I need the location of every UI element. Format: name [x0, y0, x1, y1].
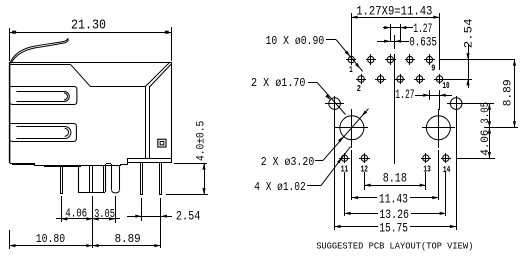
dim text 10.80 [36, 233, 65, 246]
side latch slot 1 outer [10, 87, 77, 105]
svg-text:8.89: 8.89 [115, 233, 141, 246]
svg-text:2 X ø1.70: 2 X ø1.70 [251, 77, 306, 90]
svg-text:10.80: 10.80 [36, 233, 65, 246]
svg-text:3.05: 3.05 [480, 102, 492, 124]
dim text 1.27X9=11.43 [356, 5, 432, 19]
dim text 3.05 (right) [480, 102, 492, 124]
pad 8 (Ø0.90) [414, 74, 425, 84]
pin label 14 [443, 164, 451, 175]
svg-text:15.75: 15.75 [379, 220, 408, 235]
dim text 2.54 (right) [463, 18, 475, 48]
dim 0.635 tick [0, 0, 1, 1]
dim text 11.43 [379, 192, 408, 207]
svg-text:1.27X9=11.43: 1.27X9=11.43 [356, 5, 432, 19]
pad 14 (Ø1.02) [441, 153, 451, 163]
pad 11 (Ø1.02) [339, 153, 350, 163]
svg-text:1: 1 [349, 64, 353, 75]
dim text 21.30 [71, 17, 106, 33]
note 2 X ø3.20 [261, 156, 323, 169]
ext pads 12-13 down [365, 172, 426, 190]
dim text 13.26 [379, 207, 409, 222]
dim 4.0±0.5 line [202, 163, 205, 194]
dim text 4.06 (right) [480, 130, 492, 156]
latch spring wire [10, 38, 68, 63]
dim 15.75 line [334, 225, 456, 228]
dim 1.27 line (pads 9-10) [415, 94, 452, 97]
dim 21.30 extension lines [10, 27, 172, 61]
dim text 1.27 (top) [413, 22, 432, 36]
note 4 X ø1.02 [254, 181, 321, 194]
pad 9 (Ø0.90) [424, 54, 435, 65]
dim 1.27 ticks (pads 9-10) [430, 90, 440, 110]
dim 1.27X9=11.43 extension lines [352, 13, 440, 70]
pin label 1 [349, 64, 353, 75]
pad 6 (Ø0.90) [395, 74, 405, 84]
pad 12 (Ø1.02) [359, 153, 370, 163]
svg-text:2.54: 2.54 [463, 18, 475, 48]
dim text 8.89 [115, 233, 141, 246]
svg-text:13: 13 [423, 164, 431, 175]
dim 21.30 line [10, 31, 171, 34]
dim text 1.27 (pads 9-10) [395, 88, 414, 102]
side latch slot 2 inner lance [16, 127, 71, 139]
pad 2 (Ø0.90) [356, 74, 366, 84]
svg-text:8.89: 8.89 [503, 79, 515, 106]
dim text 0.635 [409, 36, 437, 50]
body right edge [171, 62, 173, 158]
board-lock flange bar [128, 158, 172, 163]
svg-text:4 X ø1.02: 4 X ø1.02 [254, 181, 305, 194]
caption SUGGESTED PCB LAYOUT(TOP VIEW) [316, 240, 473, 251]
top-left chamfer edge [70, 64, 90, 86]
pad 13 (Ø1.02) [421, 153, 431, 163]
svg-text:4.06: 4.06 [65, 207, 87, 221]
svg-text:4.06: 4.06 [480, 130, 492, 156]
pin label 10 [442, 80, 449, 91]
body bottom edge left [10, 163, 35, 166]
leader 4 X ø1.02 [321, 147, 351, 186]
dim 10.80/8.89 line [9, 244, 161, 247]
body top edge [9, 62, 171, 64]
dim 4.06/3.05 line [56, 217, 120, 220]
dim 4.0±0.5 extension lines [166, 164, 208, 195]
pad 7 (Ø0.90) [405, 54, 415, 65]
svg-text:4.0±0.5: 4.0±0.5 [195, 121, 207, 161]
svg-text:21.30: 21.30 [71, 17, 106, 33]
dim text 2.54 (left view) [176, 208, 201, 223]
dim 2.54 line [127, 215, 172, 218]
pad 10 (Ø0.90) [434, 74, 445, 84]
row extension lines right [440, 60, 514, 80]
svg-text:3.05: 3.05 [94, 207, 115, 221]
shelf notch [106, 164, 112, 167]
dim 3.05/4.06 extension lines right [457, 104, 495, 159]
dim 8.89 line (right) [513, 59, 516, 127]
shield leg C [140, 163, 143, 195]
dim text 4.06 [65, 207, 87, 221]
svg-text:14: 14 [443, 164, 451, 175]
left Ø3.20 hole [335, 109, 368, 148]
U-shaped post [112, 166, 120, 193]
leader 2 X ø3.20 [323, 109, 369, 161]
dim 1.27X9=11.43 line [351, 16, 440, 19]
dim 13.26 line [344, 212, 446, 215]
pad 3 (Ø0.90) [366, 54, 376, 65]
svg-text:11.43: 11.43 [379, 192, 408, 207]
solder pin A (thin) [60, 166, 63, 194]
svg-text:10: 10 [442, 80, 449, 91]
dim text 4.0±0.5 [195, 121, 207, 161]
pin label 2 [357, 83, 361, 94]
vertical centerline [394, 35, 396, 164]
dim 10.80/8.89 extension line [9, 230, 11, 249]
front face edge lines [146, 86, 150, 158]
dim 4.06/3.05 extension lines [62, 196, 116, 248]
note 10 X ø0.90 [266, 35, 337, 48]
shield leg D [159, 163, 162, 195]
dim 11.43 line [352, 196, 439, 199]
dim 1.27 line (pads 5-6) [383, 26, 413, 29]
dim 8.18 line [364, 184, 426, 187]
right Ø3.20 hole [422, 109, 455, 148]
plastic post block B [78, 166, 106, 193]
svg-text:9: 9 [431, 62, 435, 73]
pin label 11 [341, 164, 349, 175]
side latch slot 2 outer [10, 124, 77, 142]
dim 0.635 line [377, 40, 409, 43]
svg-text:2: 2 [357, 83, 361, 94]
svg-text:2.54: 2.54 [176, 208, 201, 223]
body left edge [9, 62, 11, 163]
svg-text:8.18: 8.18 [383, 171, 407, 185]
pin label 9 [431, 62, 435, 73]
pad 1 (Ø0.90) [346, 54, 356, 65]
svg-text:SUGGESTED PCB LAYOUT(TOP VIEW): SUGGESTED PCB LAYOUT(TOP VIEW) [316, 240, 473, 251]
dim 2.54 line (right) [466, 44, 469, 88]
top-right chamfer (double line) [145, 62, 171, 87]
svg-text:1.27: 1.27 [413, 22, 432, 36]
pin label 12 [361, 164, 369, 175]
pin label 13 [423, 164, 431, 175]
dim text 15.75 [379, 220, 408, 235]
svg-text:10 X ø0.90: 10 X ø0.90 [266, 35, 325, 48]
dim text 3.05 [94, 207, 115, 221]
dim 1.27 ticks (pads 5-6) [391, 24, 401, 42]
hole row extension line [484, 127, 518, 129]
dim 2.54 extension lines [142, 198, 161, 248]
bottom step edge [120, 158, 128, 165]
left Ø1.70 pad [325, 96, 344, 111]
note 2 X ø1.70 [251, 77, 317, 90]
ext holes down [352, 150, 439, 200]
front top edge [90, 86, 145, 88]
leader 2 X ø1.70 [317, 82, 346, 114]
dim text 8.18 [383, 171, 407, 185]
right Ø1.70 pad [447, 96, 466, 111]
pad 4 (Ø0.90) [375, 74, 386, 84]
svg-text:1.27: 1.27 [395, 88, 414, 102]
bottom shelf edge [34, 166, 121, 167]
top fold edge [10, 64, 70, 66]
pad 5 (Ø0.90) [385, 54, 396, 65]
dim 3.05/4.06 line (right) [488, 104, 491, 159]
svg-text:2 X ø3.20: 2 X ø3.20 [261, 156, 315, 169]
ext Ø1.70 pads down [335, 111, 457, 230]
shield dimple square [158, 139, 166, 147]
svg-text:0.635: 0.635 [409, 36, 437, 50]
leader 10 X ø0.90 [336, 40, 363, 72]
dim text 8.89 (right) [503, 79, 515, 106]
side latch slot 1 inner lance [16, 92, 69, 102]
ext pads 11-14 down [345, 172, 446, 216]
